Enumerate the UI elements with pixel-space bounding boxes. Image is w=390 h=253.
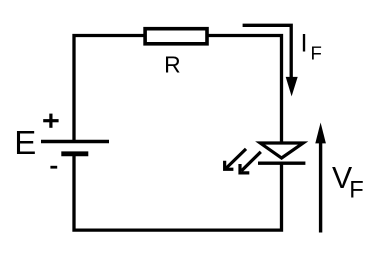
resistor R body bbox=[145, 29, 207, 44]
label VF bbox=[332, 162, 364, 204]
minus sign bbox=[50, 166, 57, 169]
LED emission arrow 2 bbox=[240, 152, 261, 173]
label IF bbox=[301, 30, 322, 64]
wire top-right: resistor to corner, down to LED anode bbox=[207, 36, 282, 143]
wire top-left: battery + terminal up and across to resistor bbox=[74, 36, 144, 141]
plus sign bbox=[43, 114, 58, 128]
LED D1 triangle (anode) bbox=[260, 143, 303, 158]
battery E positive plate (long) bbox=[41, 140, 109, 144]
voltage arrow VF (up) bbox=[315, 123, 326, 233]
LED emission arrow 1 bbox=[225, 149, 246, 169]
svg-text:F: F bbox=[349, 178, 363, 204]
battery E negative plate (short thick) bbox=[61, 151, 88, 156]
svg-text:E: E bbox=[14, 124, 36, 161]
svg-text:I: I bbox=[301, 30, 308, 58]
wire bottom: LED cathode down, across bottom, up to battery - terminal bbox=[74, 155, 282, 230]
svg-text:R: R bbox=[164, 52, 181, 78]
svg-text:F: F bbox=[311, 43, 322, 64]
current arrow IF (down) bbox=[243, 25, 298, 96]
LED D1 cathode bar bbox=[258, 161, 305, 164]
